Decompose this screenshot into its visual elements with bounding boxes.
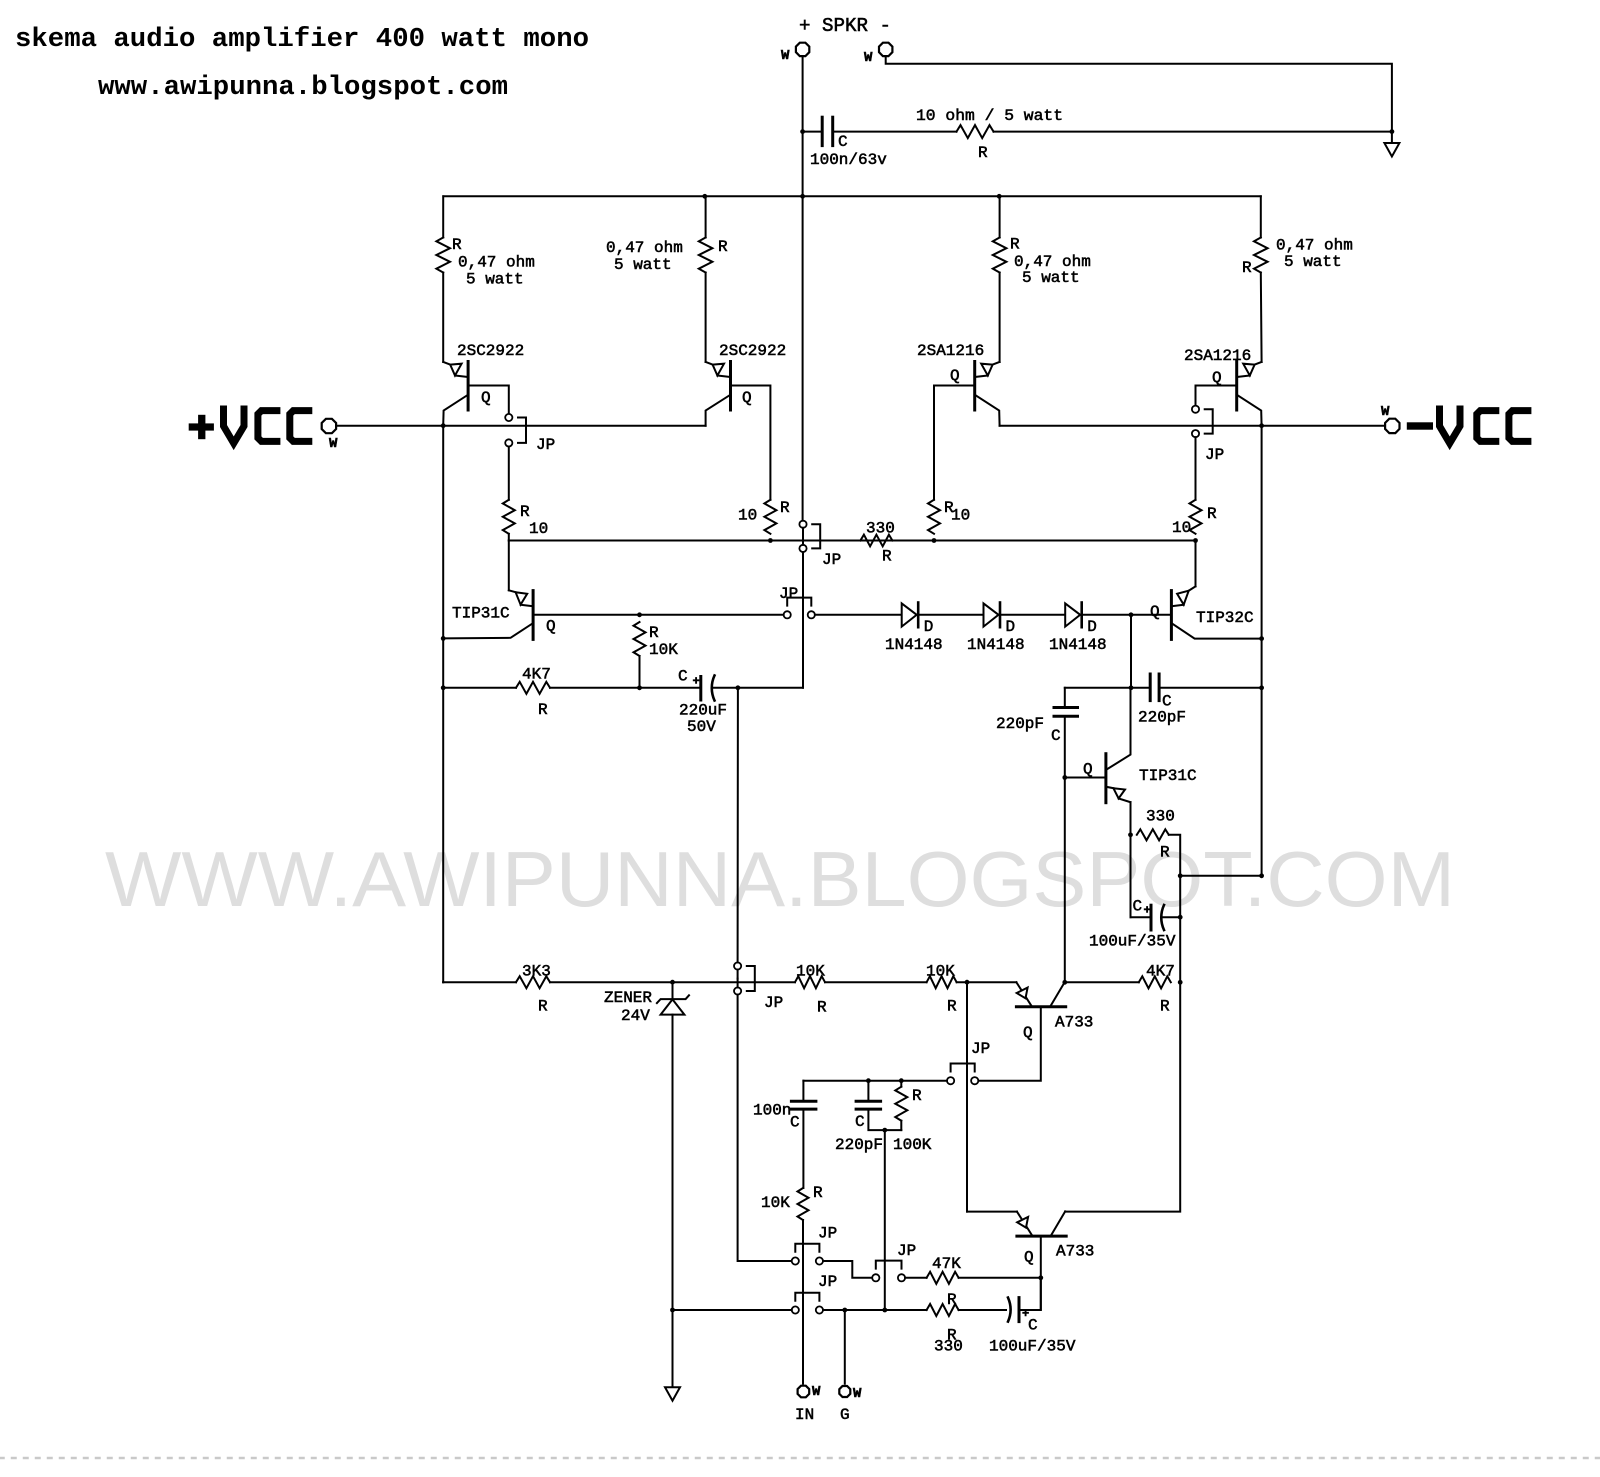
svg-text:100n: 100n (753, 1102, 791, 1120)
junction Q5 base / R10K (637, 612, 642, 617)
svg-text:R: R (649, 624, 659, 642)
svg-text:5 watt: 5 watt (614, 256, 672, 274)
svg-text:10: 10 (951, 507, 970, 525)
diode row wire right of JP4 (815, 614, 902, 616)
svg-text:Q: Q (481, 389, 491, 407)
svg-text:C: C (1051, 727, 1061, 745)
diode D1 1N4148 (902, 603, 917, 626)
wire C6 down to R18 (802, 1109, 804, 1188)
svg-text:R: R (882, 548, 892, 566)
label +VCC (189, 423, 214, 430)
svg-text:Q: Q (1083, 761, 1093, 779)
resistor R17 100K (895, 1087, 907, 1121)
svg-text:C: C (678, 668, 688, 686)
wire C3 column lower (1064, 716, 1066, 982)
terminal SPKR- pad (879, 43, 892, 56)
wire output column through JP3 (802, 196, 804, 520)
jumper JP4 (horizontal pair on diode row) (787, 598, 811, 606)
svg-text:220pF: 220pF (1138, 709, 1186, 727)
junction left rail / Q5 collector (441, 636, 446, 641)
wire 47K to Q9 base (959, 1277, 1041, 1279)
resistor R5 10 (503, 500, 515, 534)
svg-text:JP: JP (971, 1040, 990, 1058)
wire left rail to 4K7 (443, 687, 516, 689)
Q2 emitter arrow (706, 362, 713, 365)
Q9 collector (1051, 1211, 1065, 1235)
diode D2 1N4148 (984, 603, 999, 626)
resistor R4 0,47 ohm 5 watt (1254, 238, 1268, 273)
svg-text:WWW.AWIPUNNA.BLOGSPOT.COM: WWW.AWIPUNNA.BLOGSPOT.COM (105, 835, 1455, 923)
svg-text:R: R (1010, 236, 1020, 254)
wire JP8 to 47K (905, 1277, 927, 1279)
Q3 bar (973, 362, 976, 411)
resistor R19 47K (927, 1272, 959, 1284)
wire SPKR- to ground run (886, 57, 1392, 131)
jumper JP6 (feedback) (951, 1064, 975, 1072)
resistor R11 4K7 (516, 682, 550, 694)
svg-text:JP: JP (897, 1242, 916, 1260)
Q3 base wire to R7 (934, 386, 975, 500)
Q7 emitter arrow (1107, 787, 1114, 788)
svg-text:JP: JP (764, 994, 783, 1012)
svg-text:Q: Q (1212, 369, 1222, 387)
resistor R3 0,47 ohm 5 watt (993, 238, 1007, 273)
Q6 collector to right rail (1171, 623, 1261, 639)
svg-text:+: + (1144, 904, 1151, 918)
junction R6 / mid rail (768, 538, 773, 543)
wire R5 to mid rail (508, 534, 510, 541)
svg-text:24V: 24V (621, 1007, 650, 1025)
svg-text:0,47 ohm: 0,47 ohm (606, 239, 683, 257)
svg-text:R: R (947, 998, 957, 1016)
junction zener / ground row (670, 1308, 675, 1313)
resistor R 10 ohm / 5 watt (zobel) (957, 125, 994, 138)
wire zener anode down (672, 1015, 674, 1310)
wire diode junction down (1130, 615, 1132, 688)
wire 4K7 to C2 (550, 687, 701, 689)
svg-text:A733: A733 (1055, 1014, 1093, 1032)
wire D1-D2 (918, 614, 983, 616)
svg-text:JP: JP (1205, 446, 1224, 464)
svg-text:D: D (1087, 618, 1097, 636)
svg-text:10: 10 (738, 507, 757, 525)
svg-text:50V: 50V (687, 718, 716, 736)
svg-text:TIP32C: TIP32C (1196, 609, 1254, 627)
resistor R14 10K (795, 976, 825, 988)
wire left of 220pF row (1065, 687, 1150, 689)
svg-text:R: R (1160, 998, 1170, 1016)
svg-text:0,47 ohm: 0,47 ohm (1276, 237, 1353, 255)
svg-text:10K: 10K (761, 1194, 790, 1212)
wire left rail upper (442, 426, 444, 983)
Q2 bar (729, 362, 732, 411)
wire rail corner down to R1 (442, 196, 444, 237)
resistor R9 330 (mid) (860, 535, 892, 547)
terminal G pad (839, 1386, 850, 1397)
junction 100K top (899, 1078, 904, 1083)
svg-text:5 watt: 5 watt (1022, 269, 1080, 287)
svg-text:JP: JP (818, 1273, 837, 1291)
Q8 collector (1051, 982, 1065, 1006)
junction right rail / 220pF row (1259, 685, 1264, 690)
wire JP1 to R5 (508, 447, 510, 500)
Q4 base wire to jumper (1196, 386, 1237, 406)
wire rail corner down to R4 (1260, 196, 1262, 237)
svg-text:R: R (538, 998, 548, 1016)
wire mid rail (509, 540, 1196, 542)
junction feedback column (965, 980, 970, 985)
svg-text:skema audio amplifier 400 watt: skema audio amplifier 400 watt mono (15, 25, 589, 55)
diode D3 1N4148 (1065, 603, 1080, 626)
junction right rail end (1259, 873, 1264, 878)
svg-text:330: 330 (866, 520, 895, 538)
resistor R7 10 (928, 500, 940, 534)
wire Q8 collector row to 4K7 (1065, 981, 1139, 983)
wire Q7 emitter column to C5 (1130, 835, 1132, 917)
svg-text:R: R (780, 499, 790, 517)
wire ground row left (673, 1309, 792, 1311)
capacitor C3 220pF (shunt) (1054, 706, 1078, 709)
wire R4 to Q4 emitter (1260, 273, 1263, 362)
svg-text:100K: 100K (893, 1136, 932, 1154)
Q4 emitter arrow (1255, 362, 1262, 365)
capacitor C7 220pF (feedback) (867, 1081, 869, 1102)
Q4 collector to -VCC rail (1237, 395, 1262, 426)
jumper JP2 (Q4 base) (1192, 406, 1199, 413)
resistor R18 10K (input) (798, 1188, 809, 1220)
Q5 bar (532, 591, 535, 640)
wire feedback row left (803, 1080, 947, 1082)
junction R10K / 4K7 row (637, 685, 642, 690)
svg-text:220pF: 220pF (835, 1136, 883, 1154)
svg-text:R: R (1242, 259, 1252, 277)
svg-text:JP: JP (536, 436, 555, 454)
resistor R15 10K (927, 976, 957, 988)
wire D3 to junction (1082, 614, 1131, 616)
svg-text:Q: Q (546, 618, 556, 636)
svg-text:R: R (912, 1087, 922, 1105)
Q6 base wire from diodes (1131, 614, 1171, 616)
wire cap to zobel resistor (803, 131, 823, 133)
junction C5 / column (1178, 915, 1183, 920)
svg-text:R: R (1160, 844, 1170, 862)
resistor R8 10 (1190, 500, 1202, 534)
terminal +VCC pad (322, 419, 336, 433)
Q8 base wire (978, 1007, 1041, 1080)
svg-text:JP: JP (818, 1225, 837, 1243)
Q1 collector (443, 395, 468, 426)
Q5 collector to left rail (443, 623, 533, 638)
Q9 bar (1017, 1235, 1066, 1238)
Q9 emitter arrow (1017, 1212, 1032, 1235)
svg-text:W: W (812, 1384, 821, 1400)
jumper JP3 (output node) (799, 521, 806, 528)
svg-text:C: C (1133, 898, 1143, 916)
svg-text:G: G (840, 1406, 850, 1424)
junction R8 / mid rail (1193, 538, 1198, 543)
wire right rail long (1261, 426, 1263, 876)
wire C7 bottom (868, 1109, 901, 1130)
svg-text:Q: Q (1024, 1249, 1034, 1267)
svg-text:10K: 10K (649, 641, 678, 659)
wire ground row right of JP9 (823, 1309, 927, 1311)
svg-text:10K: 10K (926, 963, 955, 981)
junction zener (670, 980, 675, 985)
svg-text:C: C (1028, 1317, 1038, 1335)
junction output rail / speaker drop (800, 194, 805, 199)
svg-text:220pF: 220pF (996, 715, 1044, 733)
junction C7/R17 bottom (882, 1128, 887, 1133)
svg-text:5 watt: 5 watt (1284, 253, 1342, 271)
wire R15 to Q8 (957, 981, 1017, 983)
svg-text:R: R (718, 238, 728, 256)
wire C8 to Q9 base node (1019, 1278, 1041, 1310)
svg-text:10 ohm / 5 watt: 10 ohm / 5 watt (916, 107, 1063, 125)
svg-text:10K: 10K (796, 963, 825, 981)
wire R18 to IN terminal (802, 1220, 804, 1384)
svg-text:5 watt: 5 watt (466, 271, 524, 289)
junction 330/100uF column at y875 wire (1178, 873, 1183, 878)
svg-text:JP: JP (822, 551, 841, 569)
Q8 bar (1016, 1005, 1065, 1008)
svg-text:330: 330 (1146, 808, 1175, 826)
svg-text:R: R (538, 701, 548, 719)
capacitor C6 100n (input filter) (802, 1081, 804, 1102)
svg-text:10: 10 (529, 520, 548, 538)
svg-text:10: 10 (1172, 519, 1191, 537)
jumper JP9 (input row 2 / ground) (795, 1293, 819, 1301)
jumper JP8 (to 47K) (876, 1261, 902, 1269)
junction zobel ground corner (1390, 129, 1395, 134)
wire R2 to Q2 emitter (705, 273, 707, 362)
svg-text:R: R (452, 236, 462, 254)
wire C3 column upper (1064, 688, 1066, 708)
jumper JP1 (Q1 base) (505, 414, 512, 421)
junction Q7 emitter / R12 (1128, 832, 1133, 837)
bottom dotted scan line (0, 1457, 1600, 1460)
wire SPKR+ drop to output node (802, 57, 804, 196)
wire JP5 down to input row (738, 995, 792, 1261)
svg-text:www.awipunna.blogspot.com: www.awipunna.blogspot.com (98, 73, 508, 103)
svg-text:W: W (329, 436, 338, 452)
resistor R1 0,47 ohm 5 watt (436, 238, 450, 273)
junction G terminal drop (842, 1308, 847, 1313)
wire y875 to right rail (1180, 875, 1261, 877)
junction right rail / Q6 collector (1259, 636, 1264, 641)
svg-text:0,47 ohm: 0,47 ohm (458, 254, 535, 272)
svg-text:R: R (978, 144, 988, 162)
junction +VCC / Q1 collector (441, 423, 446, 428)
wire output rail (443, 195, 1260, 197)
Q3 collector to -VCC rail (975, 395, 1000, 426)
wire R14 to R15 (825, 981, 927, 983)
Q7 collector up to 220pF row (1107, 688, 1131, 770)
junction ground row / feedback (882, 1308, 887, 1313)
svg-text:4K7: 4K7 (522, 666, 551, 684)
capacitor C8 100uF/35V (polarized) (1008, 1298, 1011, 1322)
junction 220pF top (866, 1078, 871, 1083)
svg-text:100uF/35V: 100uF/35V (989, 1338, 1076, 1356)
wire +VCC rail segment (443, 425, 705, 427)
resistor R6 10 (764, 500, 776, 534)
wire JP2 to R8 (1195, 437, 1197, 500)
wire C2 to JP column (714, 687, 804, 689)
svg-text:+ SPKR -: + SPKR - (799, 15, 891, 37)
wire rail down to R3 (999, 196, 1001, 237)
resistor R16 4K7 (1139, 976, 1171, 988)
svg-text:3K3: 3K3 (522, 963, 551, 981)
Q7 emitter wire down (1130, 802, 1132, 835)
junction 220pF row (1129, 685, 1134, 690)
junction output rail / Q2 emitter column (702, 194, 707, 199)
junction speaker/cap node (800, 129, 805, 134)
wire D2-D3 (1000, 614, 1065, 616)
svg-text:Q: Q (1023, 1024, 1033, 1042)
Q1 base wire to jumper (468, 386, 509, 414)
Q8 emitter arrow (1016, 982, 1031, 1005)
wire +VCC to rail (337, 425, 443, 427)
zener diode ZENER 24V (672, 982, 674, 999)
svg-text:2SA1216: 2SA1216 (1184, 347, 1251, 365)
svg-text:Q: Q (1150, 603, 1160, 621)
jumper JP7 (input row 1) (795, 1244, 819, 1252)
wire zener junction to JP5 column (673, 981, 796, 983)
Q9 collector wire to right column (1065, 982, 1180, 1211)
wire C2 node down to JP5 (737, 688, 739, 963)
svg-text:100n/63v: 100n/63v (810, 151, 887, 169)
svg-text:R: R (520, 503, 530, 521)
svg-text:4K7: 4K7 (1146, 963, 1175, 981)
resistor R13 3K3 (516, 976, 550, 988)
svg-text:TIP31C: TIP31C (452, 605, 510, 623)
wire zobel R to ground corner (994, 131, 1392, 133)
wire left rail corner to 3K3 (442, 981, 444, 983)
terminal SPKR+ pad (796, 43, 809, 56)
junction -VCC / Q4 collector (1259, 423, 1264, 428)
Q6 bar (1170, 591, 1173, 640)
capacitor C2 220uF 50V (polarized) (699, 677, 702, 701)
svg-text:220uF: 220uF (679, 702, 727, 720)
Q7 base wire (1065, 777, 1106, 779)
wire C4 to right rail (1159, 687, 1262, 689)
resistor R12 330 (1137, 829, 1169, 840)
svg-text:ZENER: ZENER (604, 989, 652, 1007)
terminal IN pad (798, 1386, 810, 1398)
Q2 base wire to R6 (731, 386, 771, 500)
wire rail down to R2 (705, 196, 707, 237)
junction diode row / drop (1129, 612, 1134, 617)
svg-text:W: W (853, 1386, 862, 1402)
junction R7 / mid rail (932, 538, 937, 543)
wire R3 to Q3 emitter (999, 273, 1001, 362)
svg-text:330: 330 (934, 1338, 963, 1356)
svg-text:D: D (924, 618, 934, 636)
Q9 emitter wire from feedback column (967, 1211, 1017, 1213)
Q4 bar (1235, 362, 1238, 411)
ground (zobel) (1391, 132, 1393, 143)
capacitor C4 220pF (series) (1149, 674, 1152, 701)
wire JP7 to JP8 (823, 1261, 872, 1278)
resistor R20 330 (input) (927, 1304, 959, 1316)
svg-text:TIP31C: TIP31C (1139, 767, 1197, 785)
svg-text:2SC2922: 2SC2922 (457, 342, 524, 360)
svg-text:R: R (817, 999, 827, 1017)
svg-text:JP: JP (779, 585, 798, 603)
label -VCC (1407, 422, 1433, 429)
Q5 base wire (533, 614, 639, 616)
wire R12 to right column (1169, 835, 1180, 983)
junction C3 column / Q7 base (1062, 775, 1067, 780)
svg-text:W: W (781, 48, 790, 64)
svg-text:2SC2922: 2SC2922 (719, 342, 786, 360)
junction left rail / 4K7 row (441, 685, 446, 690)
svg-text:1N4148: 1N4148 (885, 636, 943, 654)
wire R10K bottom (639, 656, 641, 688)
junction Q8 collector node (1062, 980, 1067, 985)
svg-text:A733: A733 (1056, 1243, 1094, 1261)
svg-text:W: W (1381, 404, 1390, 420)
svg-text:C: C (855, 1113, 865, 1131)
svg-text:R: R (813, 1184, 823, 1202)
wire -VCC to rail (1000, 425, 1385, 427)
terminal -VCC pad (1385, 419, 1399, 433)
svg-text:IN: IN (795, 1406, 814, 1424)
ground (input) (672, 1310, 674, 1387)
wire 3K3 to zener junction (550, 981, 673, 983)
Q7 bar (1104, 754, 1107, 803)
svg-text:D: D (1006, 618, 1016, 636)
Q2 collector to +VCC rail (706, 395, 731, 426)
junction Q9 base node (1038, 1275, 1043, 1280)
wire R17/C7 bottom to ground row (884, 1130, 886, 1310)
junction C2 node / drop to lower JP (736, 685, 741, 690)
jumper JP5 (mid column) (734, 962, 741, 969)
svg-text:R: R (1207, 505, 1217, 523)
resistor R10 10K (634, 622, 646, 656)
wire feedback column down (966, 982, 968, 1211)
svg-text:47K: 47K (932, 1255, 961, 1273)
svg-text:W: W (864, 50, 873, 66)
svg-text:100uF/35V: 100uF/35V (1089, 933, 1176, 951)
svg-text:C: C (838, 133, 848, 151)
capacitor C 100n/63v (821, 117, 824, 145)
svg-text:1N4148: 1N4148 (967, 636, 1025, 654)
wire R1 to Q1 emitter (442, 273, 444, 362)
svg-text:2SA1216: 2SA1216 (917, 342, 984, 360)
junction 4K7 / right column (1178, 980, 1183, 985)
Q3 emitter arrow (993, 362, 1000, 365)
svg-text:+: + (693, 675, 700, 689)
wire G drop (844, 1310, 846, 1384)
svg-text:Q: Q (950, 367, 960, 385)
wire cap to R zobel (833, 131, 957, 133)
diode row wire left (640, 614, 784, 616)
junction output rail / Q3 emitter column (997, 194, 1002, 199)
resistor R2 0,47 ohm 5 watt (699, 238, 713, 273)
capacitor C5 100uF/35V (polarized) (1131, 916, 1152, 918)
svg-text:1N4148: 1N4148 (1049, 636, 1107, 654)
svg-text:C: C (790, 1114, 800, 1132)
svg-text:Q: Q (742, 389, 752, 407)
Q1 bar (467, 362, 470, 411)
Q9 base wire down (1040, 1236, 1042, 1310)
Q1 emitter arrow (443, 362, 450, 365)
wire 330 to C8 (959, 1309, 1006, 1311)
